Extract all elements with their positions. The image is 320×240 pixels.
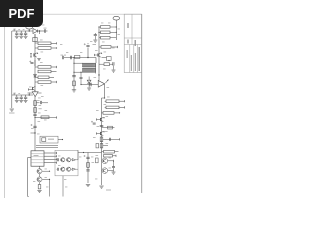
wire Q9 out [108, 170, 114, 172]
op-amp U1 [32, 92, 38, 97]
capacitor C5 polarized [29, 61, 31, 63]
resistor R18 [104, 63, 110, 66]
wire box bottom drop [62, 176, 64, 197]
label cluster mid [61, 55, 64, 56]
wire R5 right [51, 71, 57, 73]
label speckles left spine [40, 39, 43, 42]
capacitor C24 polarized [84, 155, 86, 157]
wire U2 input left [28, 157, 31, 159]
wire Q2 emitter [29, 89, 33, 91]
wire C22 branch [102, 127, 115, 129]
capacitor C6 [16, 95, 18, 97]
wire P2 vertical [115, 26, 117, 40]
capacitor C16 [80, 72, 82, 77]
capacitor C9 [41, 101, 42, 104]
wire U3 output [104, 84, 106, 98]
resistor R14 [101, 26, 111, 29]
capacitor C26 with ground [113, 161, 115, 167]
wire R7 right [51, 81, 57, 83]
wire spine lower right [101, 153, 103, 186]
resistor R1 [35, 42, 38, 44]
wire corner to spine [95, 58, 97, 64]
wire U1 left input [28, 92, 33, 94]
resistor R8 vertical [34, 101, 37, 106]
ground C1 [15, 36, 19, 38]
wire C14 up [87, 48, 89, 58]
resistor R19 [106, 100, 119, 103]
capacitor C7 [20, 95, 22, 97]
capacitor C18 [107, 57, 112, 61]
capacitor C15 [72, 76, 76, 77]
wire Q4 down [39, 182, 41, 184]
transistor Q7 [100, 131, 103, 135]
wire R29 right [113, 155, 117, 157]
label speckles bottom [45, 168, 47, 171]
diode D1 [33, 28, 38, 33]
label GND [9, 113, 15, 114]
ground x88 [86, 185, 90, 187]
capacitor C10 [33, 114, 36, 115]
wire bus line 1 [36, 145, 58, 147]
junction top rail [29, 30, 30, 31]
wire T1 left vertical [73, 58, 75, 90]
junction spine y32 [98, 32, 99, 33]
wire right column [102, 97, 105, 99]
resistor R13 vertical [73, 81, 76, 86]
label C4 [44, 28, 47, 29]
label R9 [39, 108, 42, 109]
wire Q8 out [108, 160, 114, 162]
resistor R25 vertical [100, 144, 103, 148]
page frame left border [4, 27, 6, 198]
opto row1 capacitor [57, 158, 58, 161]
capacitor C4 [45, 29, 46, 32]
resistor R9 vertical [34, 108, 37, 113]
wire U2 pin4 [44, 162, 57, 164]
resistor R6 [38, 76, 49, 79]
capacitor C11 polarized [31, 124, 33, 126]
wire R1 right [51, 42, 57, 44]
ground C17 [93, 40, 97, 42]
transistor Q6 [100, 117, 103, 121]
crystal X1 [33, 38, 37, 42]
resistor R29 [104, 155, 113, 157]
title block column line c3 [137, 45, 139, 73]
opto row2 transistor B [67, 167, 71, 171]
capacitor C25 [86, 170, 89, 171]
wire y146 stub [103, 145, 108, 147]
wire Q7 base [97, 133, 101, 135]
wire U1 right [38, 92, 41, 94]
capacitor C20 input [90, 83, 91, 86]
resistor R21 [103, 112, 114, 115]
PDF badge [0, 0, 43, 27]
connector P1 [26, 25, 33, 29]
wire R21 right [114, 112, 120, 114]
title block text title [139, 47, 140, 71]
label U2 internal [31, 153, 44, 155]
wire R19 right [119, 100, 125, 102]
ground supply wire [11, 95, 13, 108]
wire left return vertical [27, 158, 29, 197]
junction C16 top [80, 72, 81, 73]
junction spine top [39, 30, 40, 31]
label speckles top [32, 24, 34, 27]
title block column line c1 [129, 45, 131, 73]
resistor R20 [106, 106, 119, 109]
wire top rail [12, 30, 33, 32]
wire right drop x49 [49, 179, 51, 196]
resistor R22 small [108, 126, 113, 129]
wire right spine mid [98, 46, 100, 80]
op-amp U3 [98, 81, 104, 88]
wire T1 right vertical [95, 63, 97, 73]
wire box top rail [77, 150, 79, 160]
wire opto row1 [56, 159, 59, 161]
wire R20 right [119, 106, 125, 108]
resistor R10 [41, 116, 49, 119]
ground C19 [112, 70, 116, 72]
resistor R3 stub [30, 54, 32, 58]
wire Q3 collector [42, 170, 49, 172]
capacitor C8 [25, 95, 27, 97]
label K1 [48, 139, 54, 140]
wire branch y139 [103, 138, 120, 140]
wire left spine upper [34, 34, 36, 151]
title block divider horizontal h2 [124, 44, 142, 46]
page frame top border [42, 13, 142, 15]
title block text field1 [127, 50, 128, 58]
relay K1 outline [40, 136, 58, 143]
junction mid wire [87, 57, 88, 58]
wire D1 output [38, 30, 45, 32]
wire C18 stub [102, 57, 107, 59]
resistor R16 [101, 36, 111, 39]
title block text Date [127, 40, 128, 44]
wire T1 left lead bottom [74, 71, 83, 73]
ground output chain [37, 191, 41, 193]
title block divider vertical v1 [131, 14, 133, 44]
wire R2 right [51, 47, 57, 49]
transformer T1 secondary winding [82, 68, 95, 72]
ground C6 [15, 100, 19, 102]
opto row1 transistor B [67, 158, 71, 162]
transistor Q9 circled [102, 168, 108, 174]
junction spine y75 [98, 74, 99, 75]
label -V rail [14, 93, 16, 94]
transistor Q5 [98, 53, 101, 57]
wire Q6 base [97, 119, 101, 121]
capacitor C1 [16, 31, 18, 33]
ground Q1 [37, 59, 41, 61]
junction R15 [116, 32, 117, 33]
capacitor C22 [100, 125, 104, 126]
junction y133 [34, 132, 35, 133]
title block text field2 [131, 55, 132, 71]
junction y117 [34, 117, 35, 118]
wire C19 down [113, 66, 115, 70]
opto row2 arrow [72, 168, 75, 170]
wire U3 input [81, 84, 98, 86]
junction T1 left bottom [73, 72, 74, 73]
capacitor C14 polarized [84, 43, 86, 45]
capacitor C13 [71, 56, 72, 60]
wire opto row2 [56, 168, 59, 170]
transistor Q3 [37, 169, 42, 174]
relay K1 coil [42, 138, 46, 142]
title block column line c2 [133, 45, 135, 73]
resistor R7 [38, 81, 51, 84]
resistor R26 [104, 150, 115, 153]
arrow U3 out [106, 80, 109, 84]
transistor Q8 circled [102, 158, 108, 164]
wire T1 left lead top [74, 62, 83, 64]
wire bus line 2 [36, 147, 58, 149]
wire right spine top [98, 27, 100, 46]
ground C8 [24, 100, 28, 102]
label C17 [93, 44, 97, 45]
title block outline [124, 14, 142, 72]
ground C3 [24, 36, 28, 38]
resistor R23 vertical [100, 137, 103, 142]
resistor R17 [101, 46, 111, 49]
wire U2 pin3 [44, 158, 57, 160]
junction spine y27 [98, 26, 99, 27]
ground right spine [99, 186, 103, 188]
wire R6 right [49, 76, 54, 78]
page frame right border [141, 14, 143, 193]
wire x88 vertical [87, 153, 89, 184]
resistor R24 vertical [96, 144, 99, 148]
capacitor C21 polarized [91, 121, 93, 123]
label bottom right [106, 190, 111, 191]
junction R14 [116, 26, 117, 27]
wire Q5 base [95, 54, 98, 56]
title block text field3 [135, 53, 136, 71]
label speckles right spine [102, 41, 105, 44]
resistor R2 [35, 47, 38, 49]
wire branch right y117 [35, 117, 57, 119]
label C1 value [18, 28, 20, 31]
resistor R4 [38, 66, 51, 69]
title block text Sheet [135, 40, 136, 46]
transistor Q2 [33, 86, 36, 90]
connector P2 [113, 16, 120, 20]
IC U2 body [31, 151, 44, 166]
wire R17 right [111, 46, 118, 48]
resistor R5 [38, 70, 51, 73]
capacitor C17 [94, 35, 97, 36]
transistor Q1 [34, 53, 37, 57]
transformer T1 primary winding [82, 63, 95, 67]
wire K1 right [58, 139, 63, 141]
junction mid rail [29, 94, 30, 95]
wire box top link [77, 152, 79, 154]
wire mid horizontal [64, 57, 96, 59]
capacitor C19 [113, 62, 114, 65]
wire supply vertical [11, 31, 13, 95]
wire U2 pin2 [44, 155, 57, 157]
wire R4 right [51, 66, 57, 68]
capacitor C12 [63, 56, 64, 59]
junction T1 feed [73, 57, 74, 58]
ground C2 [19, 36, 23, 38]
resistor R27 vertical [87, 163, 90, 168]
label C2 value [23, 28, 25, 31]
diode D2 [34, 75, 37, 78]
transistor Q4 [37, 177, 42, 182]
resistor R28 vertical [96, 158, 99, 163]
resistor R11 vertical [38, 185, 41, 189]
junction lower rail [83, 152, 84, 153]
opto row2 transistor A [61, 167, 65, 171]
wire lower rail [78, 152, 102, 154]
title block divider horizontal h1 [124, 37, 142, 39]
ground C7 [19, 100, 23, 102]
wire mid rail [12, 94, 33, 96]
ground T1 branch [72, 90, 76, 92]
title block text Rev [127, 23, 128, 28]
opto row1 transistor A [61, 158, 65, 162]
wire Q4 collector [42, 178, 49, 180]
capacitor C2 [20, 31, 22, 33]
junction out y98 [104, 97, 105, 98]
junction T1 left top [73, 63, 74, 64]
capacitor C23 [110, 138, 111, 141]
label C7 value [18, 92, 20, 95]
capacitor C3 [25, 31, 27, 33]
wire U2 pin1 [44, 152, 57, 154]
opto row1 arrow [72, 159, 75, 161]
optocoupler box [55, 150, 78, 176]
resistor R15 [101, 31, 111, 34]
ground D3 [87, 88, 91, 90]
wire left return bottom stub [28, 196, 29, 198]
opto row2 capacitor [57, 168, 58, 171]
diode D3 [87, 80, 91, 83]
resistor R12 box [75, 55, 80, 58]
label +V rail [14, 29, 16, 30]
wire R26 right [115, 151, 119, 153]
